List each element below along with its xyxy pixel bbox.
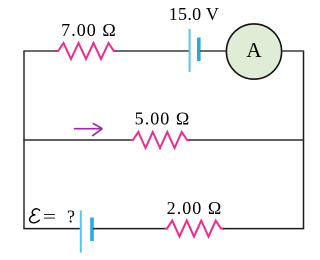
- current direction arrow: [74, 123, 103, 136]
- battery B2 short plate: [90, 218, 94, 242]
- wire R3 to bottom-right corner: [223, 228, 304, 230]
- svg-text:?: ?: [67, 206, 75, 226]
- svg-text:2.00 Ω: 2.00 Ω: [167, 198, 223, 218]
- wire top-left to R1: [23, 50, 56, 52]
- svg-text:7.00 Ω: 7.00 Ω: [61, 20, 117, 40]
- resistor R3 2.00 ohm: [165, 221, 224, 237]
- wire battery B2 to R3: [93, 228, 165, 230]
- resistor R1 7.00 ohm: [56, 43, 117, 59]
- wire bottom-left to battery B2: [23, 228, 80, 230]
- right vertical wire: [303, 51, 305, 229]
- wire R2 to middle-right: [189, 139, 304, 141]
- ammeter A circle: [226, 24, 281, 79]
- wire battery B1 to ammeter: [200, 50, 227, 52]
- wire ammeter to top-right corner: [282, 50, 305, 52]
- svg-text:=: =: [43, 206, 56, 227]
- battery B2 long plate: [80, 211, 82, 253]
- resistor R2 5.00 ohm: [131, 132, 190, 148]
- left vertical wire: [23, 51, 25, 229]
- battery B1 short plate: [197, 38, 201, 62]
- wire R1 to battery B1: [116, 50, 189, 52]
- label B2 emf script E: [30, 209, 40, 223]
- wire middle-left to R2: [23, 139, 131, 141]
- svg-text:5.00 Ω: 5.00 Ω: [135, 108, 191, 128]
- svg-text:A: A: [246, 38, 262, 62]
- svg-text:15.0 V: 15.0 V: [169, 4, 219, 24]
- battery B1 long plate: [189, 29, 191, 72]
